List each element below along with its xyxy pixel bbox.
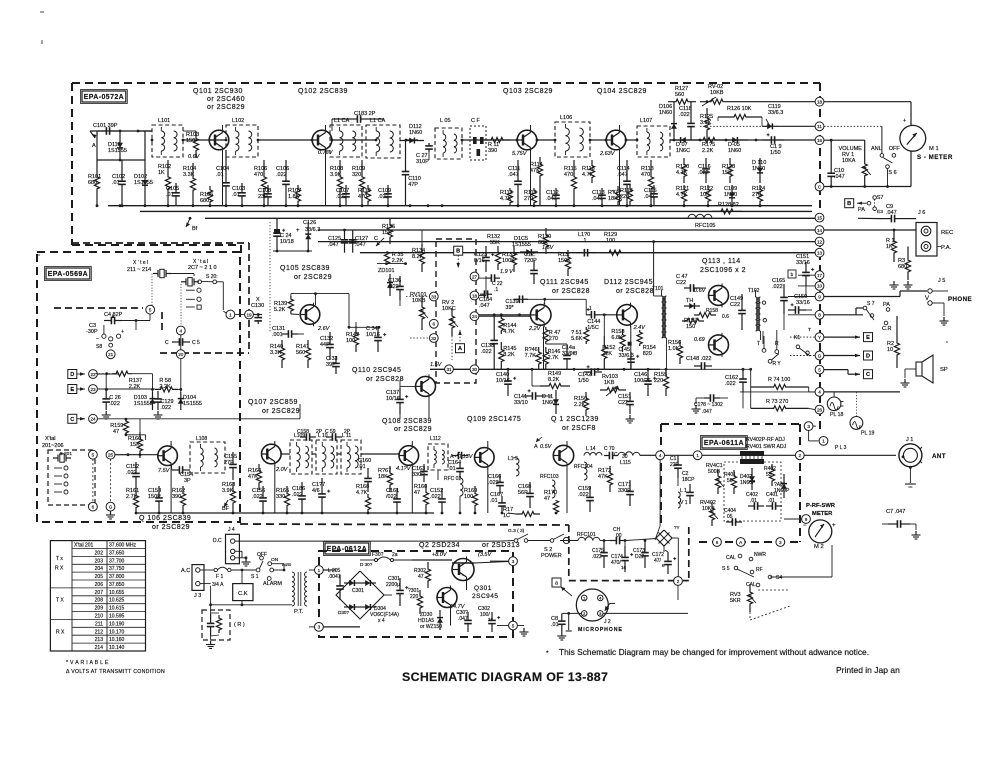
switch S201 <box>198 274 224 310</box>
svg-text:.0047: .0047 <box>328 574 341 580</box>
terminal 9 <box>815 292 824 301</box>
svg-text:203: 203 <box>95 558 104 564</box>
terminal 2d <box>795 451 896 460</box>
svg-text:208: 208 <box>95 598 104 604</box>
note volts <box>66 669 165 675</box>
resistor R116 4.7K <box>582 160 595 183</box>
choke RFC103 <box>540 474 559 498</box>
svg-text:6: 6 <box>716 540 719 545</box>
svg-text:S 7: S 7 <box>867 301 875 307</box>
svg-text:Q102 2SC839: Q102 2SC839 <box>298 88 348 95</box>
svg-text:1N60: 1N60 <box>409 130 422 136</box>
label Q110 types <box>352 367 404 383</box>
svg-text:.001: .001 <box>272 332 283 338</box>
svg-text:Δ VOLTS AT TRANSMITT COND: Δ VOLTS AT TRANSMITT CONDITION <box>66 669 165 675</box>
resistor R302 47 <box>414 562 431 588</box>
svg-text:C22: C22 <box>676 280 686 286</box>
capacitor C205 .0047 <box>328 568 344 600</box>
resistor R155 220 <box>654 369 669 396</box>
junction dots TX row <box>127 453 558 514</box>
resistor R171 10 <box>503 507 540 519</box>
svg-text:x 4: x 4 <box>378 618 385 624</box>
resistor R141 560 <box>296 340 311 368</box>
wire Q110 <box>400 380 416 388</box>
wire B+ feed to T101 <box>652 240 661 296</box>
svg-text:310P: 310P <box>416 159 429 165</box>
svg-text:.022: .022 <box>772 284 783 290</box>
svg-text:Q103 2SC829: Q103 2SC829 <box>503 88 553 95</box>
svg-text:B: B <box>456 249 460 255</box>
capacitor C142 1/50 <box>578 365 602 384</box>
svg-text:5: 5 <box>92 453 95 458</box>
inductor L120 <box>576 232 596 257</box>
svg-text:.01: .01 <box>490 498 498 504</box>
svg-text:P L 3: P L 3 <box>835 445 847 451</box>
svg-text:or 2SC829: or 2SC829 <box>152 524 190 531</box>
switch S2 POWER <box>528 525 680 559</box>
resistor R114 47K <box>530 157 543 206</box>
capacitor C162b .022 <box>430 488 446 513</box>
capacitor C116 .022 <box>698 158 711 183</box>
svg-text:D112 2SC945: D112 2SC945 <box>604 279 653 286</box>
terminal 6c <box>89 459 98 511</box>
capacitor C115 1/50 <box>762 133 784 156</box>
svg-text:39*: 39* <box>505 305 514 311</box>
svg-text:A: A <box>92 143 96 149</box>
resistor R109 320 <box>352 160 365 206</box>
svg-text:C301: C301 <box>352 588 364 594</box>
svg-text:L 10: L 10 <box>318 433 328 439</box>
resistor R129 100 <box>600 232 815 255</box>
thermistor TH <box>684 298 700 309</box>
svg-text:PL 19: PL 19 <box>861 431 874 437</box>
voltage 4.1V <box>396 466 412 472</box>
svg-text:RFC 02: RFC 02 <box>444 476 461 482</box>
capacitor C101 39P <box>93 123 118 135</box>
wire xtal feed dotted <box>152 274 181 327</box>
svg-text:1S1555: 1S1555 <box>134 401 153 407</box>
resistor R146 7.7K <box>525 347 542 369</box>
capacitor C111 .047 <box>508 160 522 206</box>
resistor R156 1.0K <box>668 340 683 364</box>
pot RV103 1KB <box>600 374 626 396</box>
svg-text:ON: ON <box>271 557 279 563</box>
wire meter m2 <box>784 518 810 521</box>
svg-text:212: 212 <box>95 629 104 635</box>
resistor R106 470 <box>254 160 267 206</box>
capacitor C129 .022 <box>154 391 174 419</box>
svg-text:J 2: J 2 <box>604 619 611 625</box>
voltage label 0.78V <box>318 150 334 156</box>
resistor R136 2.2K <box>384 252 403 264</box>
inductor L114 <box>584 446 602 456</box>
svg-text:18: 18 <box>472 293 478 298</box>
resistor R150 2.2K <box>574 392 589 416</box>
svg-text:2: 2 <box>677 579 680 584</box>
svg-text:M 1: M 1 <box>929 146 939 152</box>
capacitor C404 .05 <box>724 508 742 526</box>
capacitor C10 0.047 <box>827 162 844 188</box>
selector circles 2 <box>54 466 68 494</box>
terminal 21 <box>106 350 115 359</box>
svg-text:5.2K: 5.2K <box>274 307 286 313</box>
svg-text:470: 470 <box>564 172 573 178</box>
svg-text:33/16: 33/16 <box>796 300 810 306</box>
capacitor C173 .022 <box>633 539 649 568</box>
capacitor C133 39P <box>326 356 340 374</box>
svg-text:G.3 ( 3): G.3 ( 3) <box>508 528 525 534</box>
svg-text:16: 16 <box>488 617 494 622</box>
resistor R402 55 <box>764 464 776 486</box>
svg-text:214: 214 <box>95 645 104 651</box>
resistor R166 47 <box>414 484 429 513</box>
svg-text:OFF: OFF <box>889 146 901 152</box>
connector J4 <box>213 527 500 566</box>
capacitor C151 .022 <box>618 392 635 423</box>
capacitor C143 33/6.3 <box>546 344 577 369</box>
svg-text:1S1555: 1S1555 <box>183 401 202 407</box>
svg-text:1S1555: 1S1555 <box>108 148 127 154</box>
wire terminal C bus <box>824 151 911 188</box>
terminal 20 <box>165 335 200 359</box>
terminal 1d <box>665 451 702 460</box>
resistor R125 3.9K <box>700 100 713 140</box>
svg-text:RF: RF <box>756 567 763 573</box>
module boundary vertical dashed terminal strip <box>819 83 821 430</box>
voltage 1.6V <box>542 245 555 251</box>
terminal 27 <box>470 272 503 293</box>
svg-text:18CP: 18CP <box>682 477 695 483</box>
terminal 5c <box>89 450 98 459</box>
IF transformer L101 <box>152 118 183 157</box>
dashed module bottom boundary <box>240 524 569 525</box>
svg-text:EPA-0612A: EPA-0612A <box>327 546 367 553</box>
label Q106 types <box>139 515 191 531</box>
transistor Q101 <box>209 128 229 152</box>
svg-text:1S1555: 1S1555 <box>512 242 531 248</box>
svg-text:M 2: M 2 <box>814 544 824 550</box>
svg-text:500B: 500B <box>708 469 721 475</box>
svg-text:207: 207 <box>95 590 104 596</box>
relay R coil <box>206 605 222 649</box>
svg-text:0.6V: 0.6V <box>694 288 707 294</box>
label EPA-0572A <box>81 90 128 104</box>
svg-text:NWR: NWR <box>754 552 766 558</box>
capacitor C121 720P <box>524 252 538 284</box>
terminal 12 <box>815 237 824 246</box>
svg-text:R 74 100: R 74 100 <box>768 377 790 383</box>
BF arrow <box>222 500 230 512</box>
label RV402P RF ADJ <box>746 437 787 450</box>
svg-text:+: + <box>296 228 300 234</box>
voltage label 5.75V <box>512 151 528 157</box>
capacitor C137 10/16 <box>386 388 408 419</box>
svg-text:1.5V: 1.5V <box>430 362 443 368</box>
svg-text:17: 17 <box>817 273 823 278</box>
svg-text:20: 20 <box>178 352 184 357</box>
capacitor C174 470/16 <box>611 539 633 572</box>
terminal 24b <box>470 312 530 321</box>
svg-text:.01: .01 <box>768 498 775 504</box>
resistor R169 100 <box>464 486 478 513</box>
terminal 18 <box>815 97 824 106</box>
svg-text:ZD101: ZD101 <box>378 268 395 274</box>
jack J5 PHONE <box>925 278 972 325</box>
svg-text:23: 23 <box>90 387 96 392</box>
resistor R102 1K <box>158 160 171 206</box>
module box EPA-0572A boundary <box>72 83 820 253</box>
resistor R3 680 <box>890 247 942 290</box>
relay CK box <box>233 570 253 601</box>
svg-text:3: 3 <box>807 424 810 429</box>
dashed power filter box <box>569 525 689 581</box>
svg-text:4.1?V: 4.1?V <box>396 466 412 472</box>
svg-text:F 1: F 1 <box>216 574 223 580</box>
diode D110 1N60 <box>752 158 766 183</box>
inductor L113 <box>508 456 519 476</box>
resistor R153 6.8K <box>611 329 625 352</box>
BF arrow top <box>186 217 198 232</box>
ceramic filter C.F <box>470 118 486 160</box>
wire Q105 collector <box>291 292 381 328</box>
wire terminal 9 to phone <box>824 291 927 297</box>
terminal 18b <box>470 291 486 300</box>
svg-text:C: C <box>866 372 870 378</box>
terminal 23 <box>89 385 155 394</box>
capacitor C154 3P <box>172 465 194 484</box>
svg-text:C F: C F <box>471 118 481 124</box>
terminal 13 <box>815 248 824 257</box>
voltage 7.5V <box>158 468 171 474</box>
capacitor C305 .047 <box>456 610 472 632</box>
voltage 0.6V a <box>694 288 707 294</box>
capacitor C105 .01 <box>166 183 180 206</box>
resistor R154 820 <box>628 330 656 357</box>
svg-text:or 2SC829: or 2SC829 <box>262 408 300 415</box>
svg-text:E: E <box>866 335 870 341</box>
svg-text:8 201: 8 201 <box>60 451 72 457</box>
terminal 16 <box>815 136 824 145</box>
crystal symbol <box>53 454 71 462</box>
resistor R162 390 <box>172 486 186 513</box>
capacitor C140 10/16 <box>496 369 516 396</box>
svg-text:?Y: ?Y <box>674 525 680 530</box>
svg-text:C.R: C.R <box>882 326 892 332</box>
resistor R145 8.2K <box>499 342 517 369</box>
svg-text:J 5: J 5 <box>938 278 945 284</box>
meter M1 S-METER <box>900 118 953 161</box>
svg-text:R Y: R Y <box>773 361 782 367</box>
transistor Q107 <box>262 442 282 466</box>
svg-text:0.6: 0.6 <box>722 314 729 320</box>
capacitor C172 47/6 <box>652 550 676 574</box>
boxed letter E left <box>68 385 85 394</box>
svg-text:30: 30 <box>472 367 478 372</box>
svg-text:C22: C22 <box>730 302 740 308</box>
svg-text:R126 10K: R126 10K <box>727 106 752 112</box>
svg-text:0.5V: 0.5V <box>540 444 553 450</box>
IF transformer L112 <box>428 436 448 480</box>
svg-text:ANT: ANT <box>932 453 946 460</box>
antenna input arrow A <box>90 131 97 149</box>
svg-text:1/5C: 1/5C <box>587 325 599 331</box>
svg-text:T: T <box>808 327 811 333</box>
svg-text:.022: .022 <box>160 405 171 411</box>
scan mark <box>38 12 948 342</box>
svg-text:5KR: 5KR <box>730 598 741 604</box>
svg-text:or 2SC829: or 2SC829 <box>394 426 432 433</box>
label Q113 114 <box>700 258 746 274</box>
label Q109 type <box>467 416 521 423</box>
svg-text:33/16: 33/16 <box>796 260 810 266</box>
capacitor C149 .022 <box>730 294 746 330</box>
boxed letter D left <box>68 370 85 379</box>
label A 0.13V <box>450 452 474 460</box>
svg-text:2SC945: 2SC945 <box>472 593 499 600</box>
diode D402 1N60P <box>740 468 756 490</box>
label Q1 type <box>551 416 599 432</box>
svg-text:10: 10 <box>817 284 823 289</box>
svg-text:or 2SC829: or 2SC829 <box>207 104 245 111</box>
junction dots ground bus <box>96 204 762 207</box>
svg-text:RV401 SWR ADJ: RV401 SWR ADJ <box>746 444 787 450</box>
capacitor C113 .047 <box>592 188 606 206</box>
resistor R130 68K <box>538 228 551 254</box>
resistor R144 4.7K <box>499 315 517 335</box>
wire B+ line to terminal 15 <box>205 217 819 219</box>
capacitor C110 47P <box>402 141 421 206</box>
wire AGC detector line <box>670 139 819 141</box>
svg-text:11: 11 <box>817 124 822 129</box>
wire to terminal 13 <box>360 252 819 254</box>
label Q2 <box>419 542 520 549</box>
svg-text:0.69: 0.69 <box>694 337 705 343</box>
svg-text:8.2K: 8.2K <box>548 377 560 383</box>
diode D112 1N60 <box>400 124 424 144</box>
svg-text:213: 213 <box>95 637 104 643</box>
svg-text:16: 16 <box>621 565 627 570</box>
svg-text:18: 18 <box>817 100 823 105</box>
capacitor C104 .01 <box>216 150 230 206</box>
capacitor C114 .047 <box>617 160 631 206</box>
svg-text:10.160: 10.160 <box>109 637 125 643</box>
svg-text:EPA-0569A: EPA-0569A <box>48 271 88 278</box>
junction <box>119 130 140 208</box>
capacitor C126 33/6.3 <box>296 220 320 251</box>
switch ANL S6 <box>871 146 900 188</box>
capacitor C159 2P <box>325 429 351 441</box>
resistor R120 4.7K <box>676 158 689 183</box>
terminal G <box>815 351 824 360</box>
svg-text:202: 202 <box>95 550 104 556</box>
speaker SP <box>901 355 948 387</box>
boxed letter A2 <box>456 330 465 353</box>
capacitor C156 .022 <box>252 486 267 513</box>
resistor R137 2.2K <box>95 371 152 392</box>
svg-text:OFF: OFF <box>257 552 267 558</box>
voltage 14.7V <box>450 604 466 610</box>
svg-text:6: 6 <box>662 563 665 568</box>
wire squelch <box>390 218 422 272</box>
capacitor C1 22P <box>670 455 682 486</box>
capacitor C167 .01 <box>490 492 506 513</box>
svg-text:9: 9 <box>818 294 821 299</box>
svg-text:12: 12 <box>817 239 823 244</box>
svg-text:X'tal: X'tal <box>45 436 56 442</box>
boxed letter a <box>552 578 572 596</box>
footnote <box>546 647 869 657</box>
label EPA-0612A <box>324 542 371 556</box>
transistor Q104 <box>606 128 626 152</box>
svg-text:L107: L107 <box>640 118 652 124</box>
svg-text:55K: 55K <box>490 240 500 246</box>
label X'tal 201-206 <box>42 436 64 449</box>
svg-text:4: 4 <box>659 453 662 458</box>
transistor Q103 <box>517 128 537 152</box>
transistor Q111 <box>530 303 551 328</box>
voltage 2.0V <box>275 467 289 473</box>
svg-text:C148 .022: C148 .022 <box>686 356 711 362</box>
resistor R161 2.7K <box>126 488 139 513</box>
pot RV401 500B <box>706 463 724 494</box>
resistor R122 10K <box>700 185 713 206</box>
boxed letter D <box>824 351 873 360</box>
svg-text:C: C <box>70 417 74 423</box>
svg-text:REC: REC <box>941 230 953 236</box>
svg-text:209: 209 <box>95 606 104 612</box>
capacitor C141 33/10 <box>514 389 552 406</box>
svg-text:3/4 A: 3/4 A <box>212 582 224 588</box>
label Q103 types <box>503 88 553 95</box>
svg-text:4.7K: 4.7K <box>503 329 515 335</box>
terminal 25 <box>106 450 128 459</box>
resistor R107 1.8K <box>288 185 301 206</box>
svg-text:S8: S8 <box>96 344 102 350</box>
resistor R167 18K <box>378 466 393 492</box>
capacitor C118 .022 <box>679 102 695 140</box>
svg-text:CAL: CAL <box>746 582 756 588</box>
wire ground bus lower <box>140 210 812 212</box>
switch S7b <box>863 301 875 320</box>
diode D401 1N60P <box>774 474 790 498</box>
svg-text:C.K: C.K <box>238 591 248 597</box>
svg-text:10.655: 10.655 <box>109 590 125 596</box>
label Q107 types <box>248 399 300 415</box>
terminal Ad <box>736 538 745 547</box>
crystal X207 <box>181 278 199 286</box>
svg-text:18K: 18K <box>378 474 388 480</box>
svg-text:PA: PA <box>858 207 865 213</box>
svg-text:E: E <box>70 387 74 393</box>
transistor Q2 <box>452 557 474 583</box>
svg-text:Q107 2SC859: Q107 2SC859 <box>248 399 298 406</box>
svg-text:560: 560 <box>675 92 684 98</box>
svg-text:R128 82: R128 82 <box>718 202 739 208</box>
capacitor C145 33/6.3 <box>619 347 640 369</box>
resistor R104 3.3K <box>183 163 196 206</box>
svg-text:210: 210 <box>95 614 104 620</box>
capacitor C106 .022 <box>276 160 290 206</box>
svg-text:2C7 ~ 2 1 0: 2C7 ~ 2 1 0 <box>188 265 217 271</box>
svg-text:V: V <box>925 296 929 302</box>
SWR pickup transformer <box>740 451 764 464</box>
voltage label 2.63V <box>599 151 616 157</box>
transistor Q105 <box>300 303 320 327</box>
svg-text:T X: T X <box>56 598 64 604</box>
pot RV2 10KC <box>442 300 458 360</box>
terminal 5 <box>815 365 824 374</box>
svg-text:L1 CA: L1 CA <box>370 118 386 124</box>
